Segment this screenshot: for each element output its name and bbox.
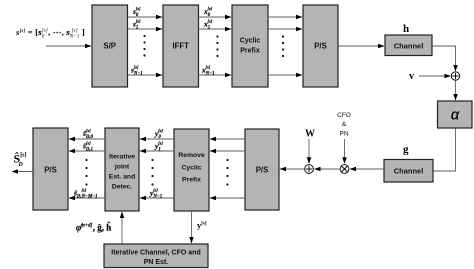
wire: output arrow from P/S out (12, 171, 33, 173)
wire sN-1: S/P to IFFT row N-1 (128, 74, 163, 76)
svg-text:Prefix: Prefix (240, 48, 260, 55)
svg-text:PN Est.: PN Est. (144, 259, 169, 266)
wire: P/S rx to Remove CP row N-1 (210, 197, 245, 199)
block Channel (h) (385, 35, 432, 56)
dots between IFFT and Cyclic Prefix (216, 35, 218, 57)
block Remove Cyclic Prefix (174, 129, 209, 211)
svg-text:joint: joint (114, 164, 130, 171)
block Iterative Channel, CFO and PN Est. (104, 244, 208, 268)
wire: Channel g to multiplier (350, 168, 384, 170)
svg-text:Remove: Remove (178, 152, 205, 159)
wire: adder W to receiver P/S (280, 168, 305, 170)
svg-text:Channel: Channel (394, 42, 424, 51)
svg-text:α: α (451, 108, 460, 124)
wire: multiplier to adder W (315, 168, 341, 170)
node label: input vector s^[s] (15, 27, 85, 40)
wire s0: S/P to IFFT row 1 (128, 16, 163, 18)
wire x0: IFFT to Cyclic Prefix row 1 (199, 16, 232, 18)
svg-text:Channel: Channel (394, 167, 424, 176)
svg-text:PN: PN (339, 131, 348, 138)
wire: Remove CP down to estimator block (191, 211, 193, 243)
svg-text:S/P: S/P (103, 42, 116, 51)
wire: CFO/PN into multiplier (344, 139, 346, 163)
svg-text:Iterative Channel, CFO and: Iterative Channel, CFO and (111, 250, 200, 257)
wire y1: Remove CP to Iterative joint row 2 (140, 150, 174, 152)
svg-text:W: W (305, 129, 315, 140)
wire: adder to alpha block (455, 80, 457, 100)
adder node (+ v) (451, 72, 459, 80)
svg-text:Detec.: Detec. (112, 184, 133, 191)
block Iterative joint Est. and Detec. (105, 128, 139, 211)
wire: Cyclic Prefix to P/S row 1 (268, 16, 302, 18)
wire: v into adder (419, 75, 451, 77)
dots between Iterative joint and P/S out (85, 159, 87, 186)
svg-text:Prefix: Prefix (182, 177, 201, 184)
wire y0: Remove CP to Iterative joint row 1 (140, 138, 174, 140)
block IFFT (163, 5, 199, 87)
block Channel (g) (384, 160, 433, 183)
wire: P/S rx to Remove CP row 1 (210, 138, 245, 140)
wire: Cyclic Prefix to P/S row 2 (268, 28, 302, 30)
multiplier node (CFO/PN) (340, 165, 349, 174)
wire: P/S to Channel h (338, 45, 384, 47)
wire: input arrow into S/P (46, 45, 91, 47)
wire: W into adder (308, 139, 310, 163)
wire sD1: Iterative joint to P/S out row 2 (69, 150, 105, 152)
svg-text:IFFT: IFFT (172, 42, 189, 51)
wire: alpha down and left into Channel g (434, 129, 456, 172)
svg-text:P/S: P/S (314, 42, 327, 51)
svg-text:P/S: P/S (44, 166, 57, 175)
block P/S (receiver serial-to-parallel) (245, 129, 279, 210)
block S/P (transmitter serial-to-parallel) (92, 5, 128, 87)
wire sD0: Iterative joint to P/S out row 1 (69, 138, 105, 140)
block Cyclic Prefix (232, 5, 268, 87)
wire: Cyclic Prefix to P/S row N-1 (268, 74, 302, 76)
wire sDNM1: Iterative joint to P/S out row N-M-1 (69, 197, 105, 199)
svg-text:g: g (403, 144, 409, 156)
svg-text:CFO: CFO (337, 112, 351, 119)
svg-text:Est. and: Est. and (109, 174, 135, 181)
dots between P/S rx and Remove CP (226, 159, 228, 186)
svg-text:h: h (403, 23, 409, 35)
block alpha (438, 101, 473, 128)
wire yN-1: Remove CP to Iterative joint row N-1 (140, 197, 174, 199)
block P/S (transmitter parallel-to-serial) (303, 5, 338, 87)
wire s1: S/P to IFFT row 2 (128, 28, 163, 30)
dots between Cyclic Prefix and P/S (282, 35, 284, 57)
svg-text:Cyclic: Cyclic (240, 38, 261, 45)
label CFO & PN (337, 112, 351, 138)
svg-text:&: & (342, 121, 347, 128)
wire: Channel h to noise adder (432, 46, 456, 71)
adder node (+ W) (305, 165, 314, 174)
wire x1: IFFT to Cyclic Prefix row 2 (199, 28, 232, 30)
wire xN-1: IFFT to Cyclic Prefix row N-1 (199, 74, 232, 76)
wire: estimator block up into Iterative joint (121, 212, 123, 244)
block P/S (output parallel-to-serial) (33, 128, 68, 210)
svg-text:Cyclic: Cyclic (181, 164, 201, 171)
svg-text:v: v (409, 71, 414, 82)
wire: P/S rx to Remove CP row 2 (210, 150, 245, 152)
dots between S/P and IFFT (143, 35, 145, 57)
svg-text:Iterative: Iterative (109, 154, 135, 161)
svg-text:P/S: P/S (256, 166, 269, 175)
dots between Remove CP and Iterative joint (151, 159, 153, 186)
